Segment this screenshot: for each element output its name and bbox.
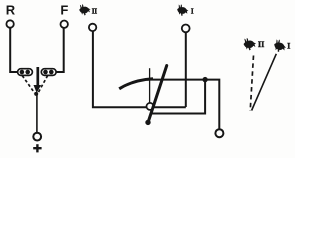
dashed link right bbox=[38, 76, 48, 94]
svg-text:II: II bbox=[92, 7, 98, 15]
pivot circle bbox=[147, 103, 154, 110]
junction dot bbox=[202, 77, 207, 82]
wire I bbox=[185, 33, 187, 108]
wire branch to lever bbox=[151, 80, 206, 114]
legend rabbit II bbox=[244, 38, 257, 51]
svg-text:R: R bbox=[6, 2, 16, 17]
label plus bbox=[33, 144, 41, 152]
svg-text:F: F bbox=[60, 2, 68, 17]
neutral position line bbox=[149, 68, 151, 103]
wire F bbox=[56, 28, 64, 72]
legend dashed line bbox=[250, 56, 253, 112]
terminal battery bbox=[33, 133, 41, 141]
terminal output bbox=[215, 129, 223, 137]
wire to battery terminal bbox=[36, 94, 38, 132]
wire bus top bbox=[147, 80, 219, 130]
switch wiper arrow bbox=[34, 67, 42, 96]
svg-text:I: I bbox=[287, 42, 290, 51]
wiper fast icon I bbox=[176, 4, 189, 17]
terminal R bbox=[6, 20, 13, 27]
terminal I bbox=[182, 25, 190, 33]
wire R bbox=[10, 28, 17, 72]
svg-text:I: I bbox=[191, 7, 194, 15]
dashed link left bbox=[22, 76, 34, 94]
terminal F bbox=[60, 21, 67, 28]
terminal II bbox=[89, 24, 96, 31]
contact arc bbox=[119, 79, 153, 89]
lever bbox=[145, 66, 166, 126]
legend rabbit I bbox=[272, 38, 288, 54]
legend solid line bbox=[252, 54, 277, 111]
wiper fast icon II bbox=[79, 4, 90, 15]
contact pair left bbox=[18, 69, 33, 76]
wire II bbox=[93, 31, 186, 107]
contact pair right bbox=[41, 69, 56, 76]
svg-text:II: II bbox=[258, 40, 265, 49]
